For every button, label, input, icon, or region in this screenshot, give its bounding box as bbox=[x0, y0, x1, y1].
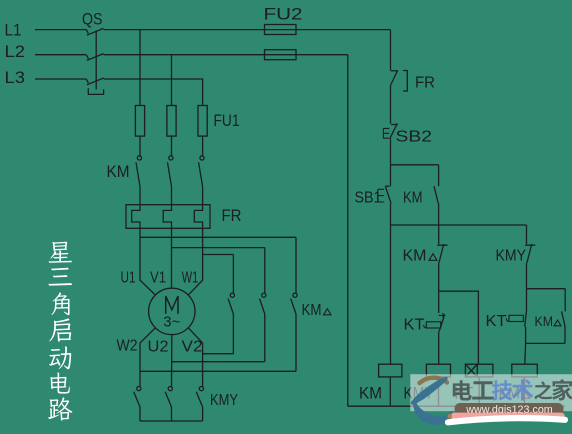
wire phase C drop bbox=[202, 79, 204, 106]
interlock KMY label bbox=[496, 248, 527, 265]
stop button SB2 bbox=[383, 124, 397, 165]
svg-text:L3: L3 bbox=[5, 68, 26, 87]
wire KM coil feed bbox=[390, 225, 392, 364]
svg-text:KM: KM bbox=[302, 302, 322, 319]
wire U2 down bbox=[171, 335, 173, 387]
fuse FU1a bbox=[135, 106, 144, 137]
svg-text:W1: W1 bbox=[182, 270, 199, 287]
start button SB1 bbox=[378, 165, 391, 225]
aux contact KM-delta latch bbox=[562, 289, 566, 344]
fuse FU1c bbox=[198, 106, 207, 137]
contactor KMY star contact 1 bbox=[134, 387, 141, 422]
delta return to U2 bbox=[172, 361, 265, 363]
watermark salmon pill bbox=[451, 413, 565, 421]
fuse FU2b bbox=[265, 50, 297, 60]
svg-text:FU2: FU2 bbox=[264, 5, 303, 24]
delta return to V2 bbox=[203, 353, 234, 355]
title char 动 bbox=[49, 346, 71, 369]
contactor KM-delta power contact 1 bbox=[228, 255, 234, 354]
wire fuse to KM contact 2 bbox=[171, 136, 173, 156]
watermark brown smudge bbox=[420, 378, 448, 383]
wire fuse to KM contact 1 bbox=[139, 136, 141, 156]
latch KM label bbox=[403, 190, 423, 207]
coil KM-delta label bbox=[499, 385, 530, 403]
timed KT left label bbox=[404, 317, 426, 334]
wire phase B drop bbox=[171, 55, 173, 106]
fuse FU2a bbox=[265, 25, 297, 35]
motor M1 letter M bbox=[166, 296, 178, 314]
svg-text:KM: KM bbox=[403, 248, 427, 265]
wire L3 out bbox=[104, 78, 204, 80]
title char 启 bbox=[49, 318, 71, 341]
aux KM-delta label bbox=[535, 313, 562, 329]
latch contact KM bbox=[434, 165, 439, 225]
FR heater element 2 bbox=[163, 205, 171, 229]
wire control rail left drop bbox=[347, 55, 349, 407]
switch QS pole 2 blade bbox=[86, 54, 103, 61]
wire L3 in bbox=[35, 78, 86, 80]
svg-text:U1: U1 bbox=[121, 270, 136, 287]
contactor KM-delta power contact 3 bbox=[291, 237, 297, 371]
FR heater element 3 bbox=[194, 205, 202, 229]
wire L2 to FU2b bbox=[104, 54, 348, 56]
rejoin rail bbox=[526, 342, 565, 344]
thermal relay FR NC contact bbox=[391, 70, 408, 123]
wire W2 down bbox=[140, 328, 156, 387]
switch QS linkage bbox=[95, 31, 97, 90]
interlock KMY NC contact bbox=[525, 225, 535, 289]
wire phase A drop bbox=[139, 30, 141, 106]
FR contact label bbox=[415, 75, 435, 92]
coil KMY label bbox=[404, 385, 434, 403]
watermark char 技 bbox=[492, 380, 513, 400]
wire L2 in bbox=[35, 54, 86, 56]
motor M1 terminal W1 bbox=[182, 270, 199, 287]
motor M1 terminal U1 bbox=[121, 270, 136, 287]
wire L1 to FU2a bbox=[104, 29, 391, 31]
svg-text:SB2: SB2 bbox=[396, 129, 433, 146]
timed contact KT right bbox=[506, 289, 526, 344]
contactor KM main contact 3 bbox=[199, 156, 204, 187]
svg-text:KM: KM bbox=[403, 190, 423, 207]
watermark url text bbox=[465, 404, 553, 416]
timed contact KT left bbox=[424, 291, 445, 364]
SB2 label bbox=[396, 129, 433, 146]
wire fuse to KM contact 3 bbox=[202, 136, 204, 156]
wire phase C to W1 bbox=[188, 228, 202, 295]
coil KT bbox=[465, 364, 493, 406]
svg-text:W2: W2 bbox=[117, 338, 138, 355]
star point bar bbox=[140, 420, 203, 422]
switch QS handle hook bbox=[88, 88, 103, 94]
title char 角 bbox=[51, 292, 69, 315]
switch QS pole 1 blade bbox=[86, 28, 103, 35]
interlock KM-delta NC contact bbox=[437, 225, 447, 291]
SB1 label bbox=[355, 190, 382, 207]
node L1 bbox=[5, 21, 22, 40]
fuse FU2 label bbox=[264, 5, 303, 24]
svg-text:L2: L2 bbox=[5, 42, 26, 61]
contactor KM main contact 1 bbox=[136, 156, 141, 187]
svg-text:V2: V2 bbox=[182, 339, 203, 356]
delta tap phase C bbox=[203, 254, 234, 256]
svg-text:KT: KT bbox=[486, 313, 508, 330]
watermark char 工 bbox=[472, 381, 494, 399]
coil KM bbox=[379, 364, 402, 406]
contactor KMY label bbox=[210, 392, 238, 409]
wire KM contact 1 to FR bbox=[139, 187, 141, 205]
delta tap phase A bbox=[140, 236, 296, 238]
timed KT right label bbox=[486, 313, 508, 330]
svg-text:KMY: KMY bbox=[496, 248, 527, 265]
wire phase B to V1 bbox=[171, 228, 173, 288]
bottom rail bbox=[348, 405, 565, 407]
coil KT label bbox=[455, 385, 474, 403]
coil KMY bbox=[426, 364, 450, 406]
switch QS pole 3 blade bbox=[86, 78, 103, 85]
branch to KT coil bbox=[439, 291, 479, 364]
coil KM-delta bbox=[512, 364, 538, 406]
watermark translucent panel bbox=[410, 374, 572, 411]
contactor KM main contact 2 bbox=[168, 156, 173, 187]
contactor KM-delta power contact 2 bbox=[260, 248, 266, 362]
watermark char 家 bbox=[552, 379, 572, 400]
fuse FU1b bbox=[167, 106, 176, 137]
motor M1 terminal U2 bbox=[148, 339, 169, 356]
svg-text:3~: 3~ bbox=[163, 315, 180, 331]
motor M1 circle bbox=[149, 288, 195, 334]
svg-text:V1: V1 bbox=[150, 270, 166, 287]
watermark dark pill bbox=[455, 403, 564, 415]
split rail right bbox=[527, 288, 566, 290]
motor M1 terminal V2 bbox=[182, 339, 203, 356]
rail y225 bbox=[391, 224, 527, 226]
contactor KMY star contact 3 bbox=[196, 387, 203, 422]
watermark char 术 bbox=[512, 379, 534, 400]
title char 星 bbox=[49, 242, 72, 263]
watermark char 电 bbox=[453, 380, 472, 400]
contactor KM-delta power label bbox=[302, 302, 332, 319]
svg-text:KM: KM bbox=[535, 313, 554, 329]
junction rail start-latch bbox=[391, 164, 439, 166]
fuse FU1 label bbox=[214, 111, 240, 130]
title char 三 bbox=[48, 268, 72, 286]
contactor KMY star contact 2 bbox=[165, 387, 172, 422]
wire KM contact 2 to FR bbox=[171, 187, 173, 205]
motor M1 terminal V1 bbox=[150, 270, 166, 287]
interlock KM-delta label bbox=[403, 248, 438, 265]
watermark white swoosh bbox=[448, 418, 565, 422]
wire L1 in bbox=[35, 29, 86, 31]
delta tap phase B bbox=[172, 247, 265, 249]
svg-text:KM: KM bbox=[107, 162, 130, 181]
motor M1 terminal W2 bbox=[117, 338, 138, 355]
title char 路 bbox=[48, 397, 72, 420]
svg-text:QS: QS bbox=[82, 10, 103, 29]
svg-text:L1: L1 bbox=[5, 21, 22, 40]
watermark logo swirl upper stroke bbox=[413, 379, 447, 404]
FR heater element 1 bbox=[132, 205, 140, 229]
wire control rail right drop bbox=[390, 30, 392, 71]
svg-text:SB1: SB1 bbox=[355, 190, 382, 207]
wire KM contact 3 to FR bbox=[202, 187, 204, 205]
motor M1 3~ bbox=[163, 315, 180, 331]
watermark logo crescent bbox=[415, 403, 453, 424]
node L3 bbox=[5, 68, 26, 87]
svg-text:FU1: FU1 bbox=[214, 111, 240, 130]
wire phase A to U1 bbox=[140, 228, 156, 295]
node L2 bbox=[5, 42, 26, 61]
thermal overload FR box bbox=[126, 205, 210, 229]
wire V2 down bbox=[188, 328, 202, 387]
thermal overload FR label bbox=[222, 206, 242, 225]
svg-text:U2: U2 bbox=[148, 339, 169, 356]
svg-text:FR: FR bbox=[415, 75, 435, 92]
coil KM label bbox=[359, 385, 382, 403]
svg-text:KT: KT bbox=[404, 317, 426, 334]
svg-text:KMY: KMY bbox=[210, 392, 238, 409]
disconnect switch QS label bbox=[82, 10, 103, 29]
title char 电 bbox=[50, 372, 69, 393]
svg-text:KM: KM bbox=[359, 385, 382, 403]
delta return to W2 bbox=[140, 370, 296, 372]
wire to KM-delta coil bbox=[524, 343, 527, 364]
svg-text:FR: FR bbox=[222, 206, 242, 225]
contactor KM label bbox=[107, 162, 130, 181]
watermark logo dot bbox=[448, 414, 453, 419]
watermark char 之 bbox=[534, 381, 552, 399]
